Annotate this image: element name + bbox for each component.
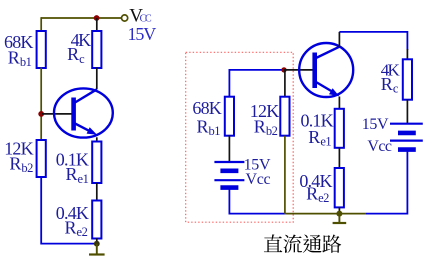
transistor Q2 (right circuit)	[299, 43, 353, 97]
wire: Rc right bottom to battery B2	[406, 100, 408, 124]
wire: Re1 to Re2 right	[338, 148, 340, 169]
battery B2 15V Vcc (right)	[390, 124, 423, 150]
wire: emitter stub right circuit	[338, 97, 340, 110]
resistor Rc 4K (right circuit)	[403, 59, 412, 99]
wire: battery B1 to bottom rail (blue)	[229, 189, 285, 214]
wire: collector branch top stub	[96, 18, 98, 32]
svg-text:Vcc: Vcc	[246, 171, 271, 188]
wire: collector stub right circuit	[338, 32, 340, 47]
wire: battery B2 to bottom rail (blue)	[366, 151, 407, 214]
resistor Rb2 12K (left circuit)	[37, 140, 46, 177]
wire: base rail right circuit (blue)	[229, 69, 284, 71]
wire: base lead right circuit	[284, 69, 313, 71]
label 直流通路 (DC path)	[264, 234, 341, 253]
svg-text:Vcc: Vcc	[367, 138, 391, 155]
svg-text:15V: 15V	[128, 24, 157, 44]
resistor Rb1 68K (right circuit)	[225, 97, 234, 136]
node: Vcc junction dot left circuit	[94, 15, 100, 21]
wire: emitter to Re1	[96, 137, 98, 142]
resistor Rb1 68K (left circuit)	[37, 31, 46, 68]
wire: Rb2 right bottom to bottom rail (olive)	[284, 136, 286, 214]
wire: Vcc top rail left circuit	[41, 17, 121, 19]
wire: stub to Rc right	[406, 49, 408, 60]
ground (right circuit)	[333, 214, 347, 223]
wire: Rc bottom to collector	[96, 68, 98, 90]
Vcc terminal (open circle)	[122, 15, 128, 21]
wire: blue drop to Rb1 right	[228, 69, 230, 97]
wire: top rail right circuit (blue)	[339, 32, 407, 50]
resistor Rb2 12K (right circuit)	[280, 97, 289, 136]
node: ground junction dot right circuit	[336, 211, 342, 217]
wire: Re2 bottom stub	[96, 238, 98, 243]
battery B1 15V Vcc (bias box)	[214, 162, 244, 188]
ground (left circuit)	[89, 244, 105, 255]
svg-text:15V: 15V	[362, 116, 389, 133]
dashed box around bias network (DC path)	[186, 52, 294, 222]
wire: base lead left circuit	[42, 113, 72, 115]
wire: Re1 to Re2	[96, 183, 98, 201]
node: base junction dot right circuit	[281, 67, 286, 72]
resistor Re1 0.1K (right circuit)	[335, 109, 344, 148]
node: base junction dot left circuit	[38, 111, 44, 117]
resistor Rc 4K (left circuit)	[92, 31, 101, 68]
wire: left column Rb1 bottom to base node	[40, 68, 42, 141]
resistor Re1 0.1K (left circuit)	[92, 142, 101, 184]
wire: Rb2 bottom to ground rail (blue)	[41, 177, 97, 244]
wire: Rb1 right bottom to battery	[228, 135, 230, 162]
wire: Re2 right bottom stub	[338, 207, 340, 213]
svg-text:Rb1: Rb1	[197, 116, 221, 138]
wire: drop from base node to Rb2 right	[284, 70, 286, 97]
resistor Re2 0.4K (right circuit)	[335, 168, 344, 207]
wire: bottom rail olive segment	[285, 213, 366, 215]
svg-text:68K: 68K	[192, 98, 221, 118]
wire: left column upper stub	[40, 17, 42, 31]
resistor Re2 0.4K (left circuit)	[92, 201, 101, 239]
transistor Q1 (left circuit)	[54, 88, 113, 137]
node: emitter-ground junction left circuit	[94, 241, 100, 247]
